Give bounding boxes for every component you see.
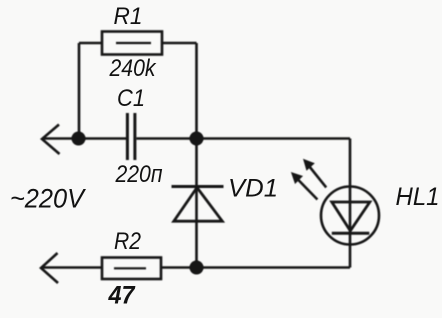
resistor R1 inner dash	[116, 42, 151, 44]
diode VD1 triangle	[174, 188, 223, 222]
svg-text:R2: R2	[114, 228, 141, 255]
wire: top node horizontal right segment	[137, 137, 351, 140]
junction node dot right	[190, 132, 204, 146]
terminal arrow bottom (~220V input)	[41, 253, 58, 283]
svg-text:240k: 240k	[109, 55, 157, 82]
capacitor C1 left plate	[126, 113, 129, 160]
wire: R1 left lead	[79, 42, 102, 45]
capacitor C1 right plate	[133, 113, 136, 160]
diode VD1 cathode bar	[172, 185, 224, 188]
wire: bottom horizontal right segment	[161, 266, 350, 269]
svg-text:VD1: VD1	[228, 175, 278, 203]
resistor R1 body	[102, 32, 162, 55]
resistor R2 inner dash	[114, 267, 146, 269]
wire: R1 right lead	[162, 42, 197, 45]
LED HL1 emission arrow left	[295, 177, 317, 200]
wire: left vertical branch to R1	[78, 43, 81, 139]
junction node dot bottom	[190, 261, 204, 275]
LED HL1 emission arrowhead left	[291, 172, 303, 184]
wire: top node horizontal left segment	[44, 137, 126, 140]
wire: LED branch vertical	[349, 139, 352, 268]
svg-text:R1: R1	[114, 3, 143, 30]
junction node dot left	[72, 132, 86, 146]
svg-text:220п: 220п	[115, 161, 163, 188]
wire: diode branch vertical	[195, 139, 198, 268]
wire: bottom horizontal left segment	[43, 266, 102, 269]
svg-text:C1: C1	[117, 85, 145, 112]
LED HL1 emission arrowhead right	[303, 159, 315, 171]
wire: right vertical from R1 down to node	[195, 43, 198, 139]
resistor R2 body	[102, 258, 161, 280]
terminal arrow top (~220V input)	[42, 125, 60, 155]
LED HL1 circle	[321, 187, 379, 245]
svg-text:47: 47	[108, 282, 136, 310]
LED HL1 emission arrow right	[307, 164, 326, 188]
LED HL1 cathode bar	[332, 232, 370, 235]
svg-text:HL1: HL1	[396, 183, 440, 211]
LED HL1 triangle	[332, 202, 370, 231]
svg-text:~220V: ~220V	[10, 184, 86, 214]
